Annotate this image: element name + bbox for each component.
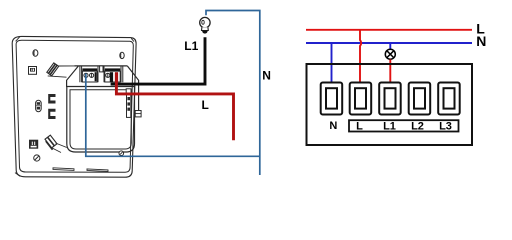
terminal block 1 top bar <box>82 68 97 71</box>
connector square top-left <box>29 67 37 75</box>
plate bottom slot 1 <box>53 168 74 171</box>
left side clip 1 (E-bracket) <box>48 94 55 104</box>
right side strip body <box>127 95 131 118</box>
red drop to terminal L with hop over N line <box>360 30 361 94</box>
plate corner chamfer bottom-left <box>15 173 20 177</box>
screw bottom-left <box>34 155 40 161</box>
right side strip marks <box>127 97 130 100</box>
terminal block 2 face <box>105 71 120 82</box>
lamp bulb base cap <box>202 31 208 34</box>
blue drop to terminal N <box>331 43 333 94</box>
plate corner chamfer top-left <box>16 37 20 42</box>
label strip box <box>349 120 459 131</box>
module top ridge <box>75 65 128 67</box>
lamp bulb highlight <box>202 20 204 24</box>
wall plate outer outline <box>12 36 136 177</box>
terminal block 2 screw <box>106 73 110 77</box>
module front face inner <box>70 90 131 149</box>
module front face outer <box>67 87 135 153</box>
blue wire from terminal to N line <box>86 74 260 157</box>
right diagram: N supply line (blue) <box>306 42 472 44</box>
terminal block 1 face <box>82 71 97 82</box>
module right shoulder slant <box>127 66 138 111</box>
terminal L1 outer <box>379 83 401 115</box>
terminal L3 outer <box>438 83 460 115</box>
svg-text:L: L <box>356 120 363 132</box>
connection box <box>307 64 473 145</box>
svg-text:N: N <box>262 69 271 83</box>
terminal N inner <box>326 88 337 108</box>
red drop from lamp to terminal L1 <box>389 59 391 94</box>
svg-text:N: N <box>329 120 337 132</box>
right side strip top box <box>126 89 131 93</box>
blue stub from N line to lamp <box>389 43 391 49</box>
plate bottom slot 2 <box>87 169 108 172</box>
left side clip 2 (E-bracket) <box>48 109 55 119</box>
plate keyhole pill left-middle <box>36 100 42 111</box>
terminal block 2 red clamp <box>115 72 118 82</box>
red wire L from module <box>116 74 233 141</box>
mounting claw top-left (hatched) <box>47 63 59 76</box>
terminal opening 2 walls <box>104 66 123 82</box>
mounting claw bottom-left (hatched) <box>45 135 57 148</box>
terminal L1 inner <box>385 88 396 108</box>
terminal N outer <box>321 83 343 115</box>
terminal L outer <box>350 83 372 115</box>
wall plate inner outline <box>16 40 133 172</box>
terminal block 1 screw A <box>84 73 88 77</box>
terminal opening 1 walls <box>80 66 98 82</box>
svg-text:L1: L1 <box>383 120 396 132</box>
svg-text:L1: L1 <box>184 39 198 53</box>
lamp bulb neck <box>202 27 209 30</box>
screw bottom-right of module <box>119 151 124 156</box>
svg-text:L3: L3 <box>439 120 452 132</box>
connector square bottom-left <box>30 140 38 148</box>
terminal block 2 top bar <box>105 68 120 71</box>
terminal block 1 screw B <box>90 73 94 77</box>
svg-text:N: N <box>476 33 486 49</box>
lamp symbol circle-X <box>385 49 395 59</box>
blue N riser and top run <box>206 11 260 176</box>
module left shoulder slant <box>67 66 79 87</box>
lamp bulb glass <box>200 17 210 27</box>
plate corner chamfer top-right <box>131 38 134 41</box>
terminal L3 inner <box>444 88 455 108</box>
svg-text:L2: L2 <box>411 120 424 132</box>
terminal block 2 black clamp <box>110 72 113 82</box>
screw hole oval top-right <box>120 52 124 58</box>
module right side clip <box>135 111 141 117</box>
svg-text:L: L <box>202 98 209 112</box>
terminal L2 inner <box>414 88 425 108</box>
right diagram: L supply line (red) <box>306 29 472 31</box>
screw hole oval top-left <box>33 50 38 57</box>
terminal L inner <box>355 88 366 108</box>
black wire L1 from bulb to module <box>111 37 205 84</box>
terminal L2 outer <box>409 83 431 115</box>
divider notch between openings <box>100 66 103 72</box>
